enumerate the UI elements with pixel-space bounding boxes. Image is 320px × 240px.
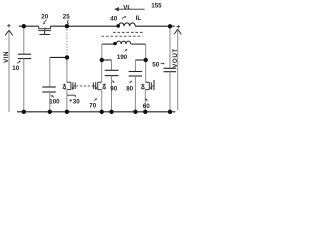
svg-text:70: 70 [89, 102, 96, 109]
svg-text:190: 190 [117, 54, 128, 61]
svg-text:80: 80 [126, 86, 133, 93]
svg-text:40: 40 [110, 15, 117, 22]
svg-text:60: 60 [143, 103, 150, 110]
svg-text:VOUT: VOUT [172, 48, 179, 68]
svg-text:50: 50 [152, 61, 159, 68]
svg-text:90: 90 [110, 86, 117, 93]
svg-text:VL: VL [123, 5, 131, 12]
svg-text:20: 20 [41, 14, 48, 21]
svg-text:10: 10 [12, 65, 19, 72]
svg-text:30: 30 [73, 98, 80, 105]
svg-text:VIN: VIN [3, 51, 10, 63]
svg-text:25: 25 [63, 14, 70, 21]
svg-text:155: 155 [151, 3, 162, 10]
svg-text:100: 100 [49, 98, 60, 105]
svg-text:IL: IL [136, 15, 142, 22]
